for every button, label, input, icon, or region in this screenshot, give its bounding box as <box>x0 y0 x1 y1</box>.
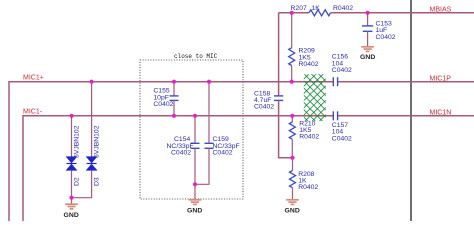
svg-text:5VJBN102: 5VJBN102 <box>74 125 81 158</box>
svg-text:C0402: C0402 <box>254 103 274 110</box>
node C154/C159 gnd rail <box>193 182 197 186</box>
svg-text:MIC1-: MIC1- <box>23 109 43 116</box>
resistor R209 <box>289 48 295 66</box>
ground (box) <box>189 200 202 205</box>
capacitor C159 (MIC1+ to gnd) <box>208 82 210 144</box>
svg-text:D2: D2 <box>74 177 81 186</box>
ground (R208) <box>286 200 299 205</box>
resistor R210 (MIC1N down) <box>291 116 293 122</box>
svg-text:GND: GND <box>64 212 79 219</box>
wire MBIAS vertical drop to C158 <box>278 13 280 96</box>
svg-text:GND: GND <box>360 54 375 61</box>
svg-text:5VJBN102: 5VJBN102 <box>94 125 101 158</box>
capacitor C158 <box>274 95 283 97</box>
node D2/MIC1- <box>69 114 73 118</box>
svg-text:GND: GND <box>285 208 300 215</box>
wire C153 to gnd <box>367 31 369 46</box>
capacitor C154 (MIC1- to gnd) <box>194 116 196 144</box>
wire MIC1+ / MIC1P line with left drop <box>9 82 333 221</box>
node R210/R208/C158 <box>290 156 294 160</box>
node C159/MIC1+ <box>207 80 211 84</box>
wire R209 branch from MBIAS <box>291 13 293 48</box>
svg-text:C0402: C0402 <box>332 67 352 74</box>
wire diode gnd stub <box>71 198 73 204</box>
wire gnd stub of box <box>194 184 196 199</box>
wire MIC1- / MIC1N line with left drop <box>23 116 333 221</box>
ground (diodes) <box>65 204 78 209</box>
node D3/MIC1+ <box>90 80 94 84</box>
wire MBIAS horizontal right segment to edge <box>331 12 474 14</box>
svg-text:R0402: R0402 <box>299 134 319 141</box>
node R209/MIC1P <box>290 80 294 84</box>
node C154/MIC1- <box>193 114 197 118</box>
svg-text:R0402: R0402 <box>333 5 353 12</box>
sheet border (right page frame line) <box>410 0 412 221</box>
capacitor C153 <box>362 25 373 27</box>
svg-text:MBIAS: MBIAS <box>430 7 452 14</box>
svg-text:R0402: R0402 <box>298 184 318 191</box>
svg-text:1K: 1K <box>312 5 321 12</box>
hatched DNP component over mic lines <box>304 74 326 121</box>
resistor R208 (node to gnd) <box>292 158 294 171</box>
node R209/MBIAS <box>290 11 294 15</box>
capacitor C155 (inside box, MIC1+ to MIC1-) <box>173 82 175 96</box>
wire from C158 down then right to R210/R208 node <box>279 100 293 157</box>
capacitor C156 (series in MIC1P) <box>332 77 334 86</box>
node C155/MIC1+ <box>172 80 176 84</box>
node D2/D3 gnd <box>69 196 73 200</box>
svg-text:MIC1P: MIC1P <box>430 75 452 82</box>
svg-text:C0402: C0402 <box>153 101 173 108</box>
dashed placement box "close to MIC" <box>140 60 243 199</box>
resistor R207 <box>309 10 331 16</box>
node R210/MIC1N <box>290 114 294 118</box>
svg-text:C0402: C0402 <box>213 150 233 157</box>
wire R209 to MIC1P <box>291 66 293 82</box>
svg-text:R0402: R0402 <box>299 61 319 68</box>
node C153/MBIAS <box>366 11 370 15</box>
svg-text:MIC1N: MIC1N <box>430 110 452 117</box>
svg-text:close to MIC: close to MIC <box>174 53 218 60</box>
node C155/MIC1- <box>172 114 176 118</box>
node junction dots <box>69 11 369 200</box>
diode D2 TVS (MIC1- to gnd) <box>71 116 73 157</box>
capacitor C157 (series in MIC1N) <box>332 111 334 120</box>
svg-text:GND: GND <box>187 208 202 215</box>
svg-text:D3: D3 <box>94 177 101 186</box>
svg-text:MIC1+: MIC1+ <box>23 75 44 82</box>
diode D3 TVS (MIC1+ to gnd) <box>91 82 93 157</box>
svg-text:C0402: C0402 <box>332 135 352 142</box>
capacitor C153 branch wire <box>367 13 369 26</box>
wire MBIAS horizontal left segment <box>279 12 309 14</box>
ground (C153) <box>361 47 374 52</box>
svg-text:C0402: C0402 <box>171 150 191 157</box>
svg-text:C0402: C0402 <box>376 34 396 41</box>
